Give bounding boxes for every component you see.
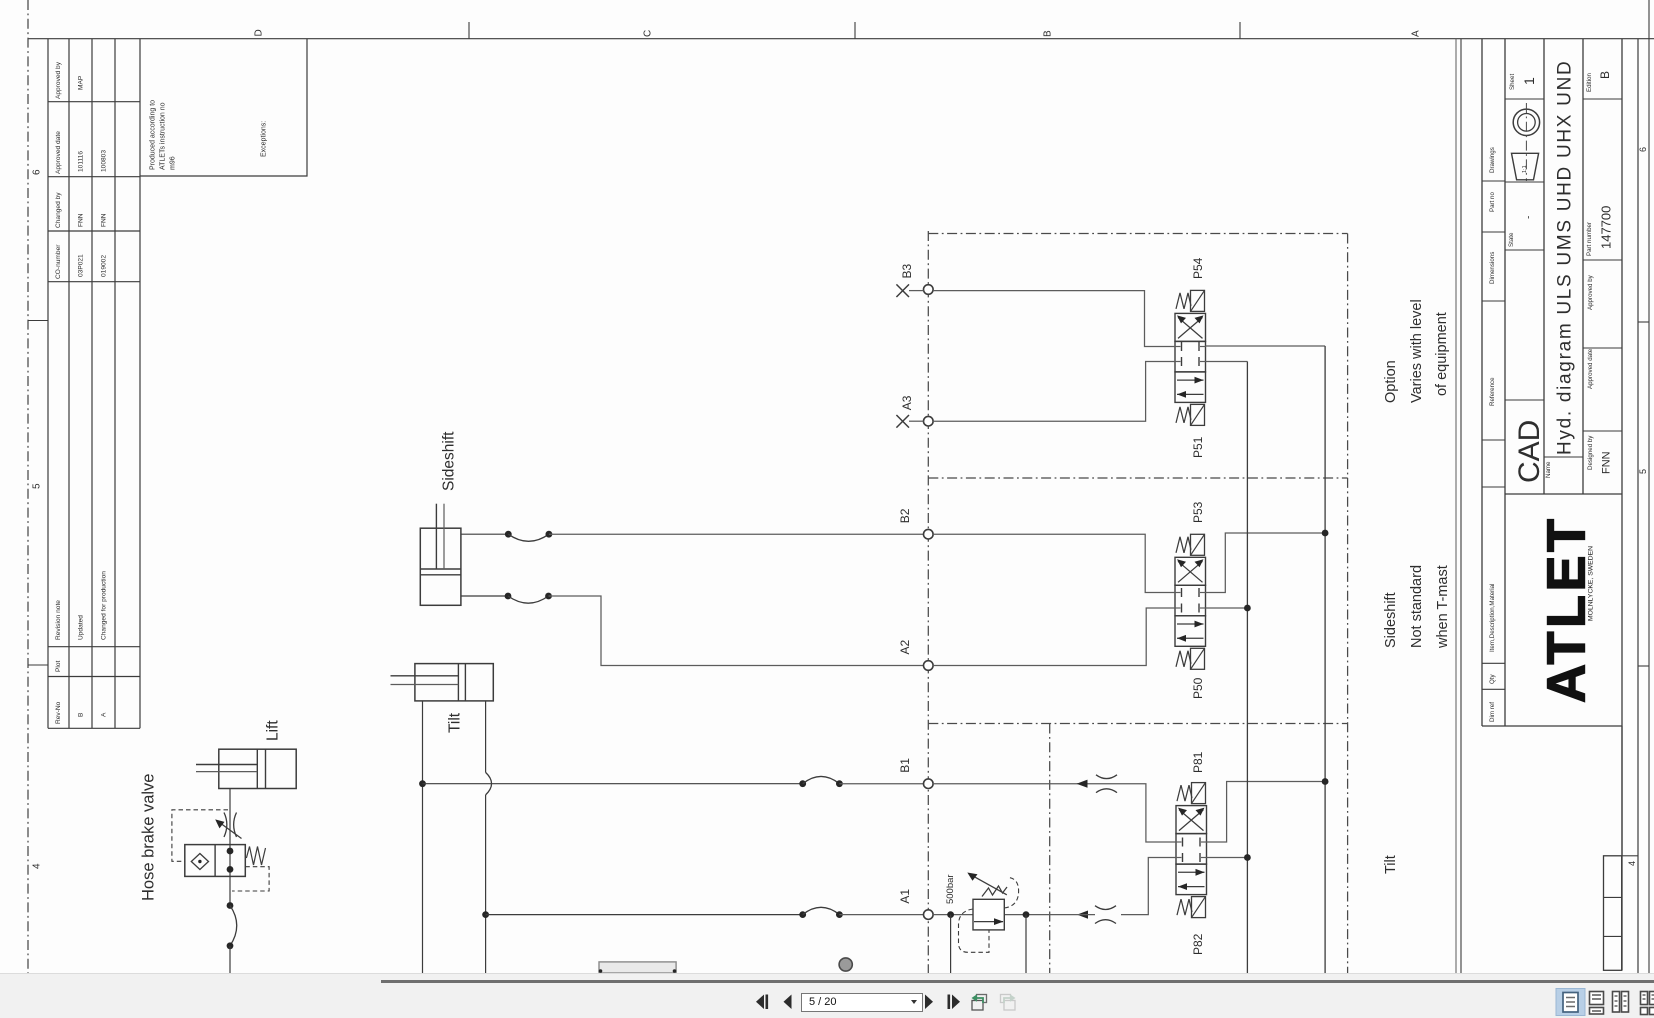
svg-text:Designed by: Designed by (1587, 435, 1594, 470)
svg-text:Updated: Updated (78, 615, 85, 640)
svg-text:Changed for production: Changed for production (101, 571, 108, 640)
frame grid tick left 1 (28, 320, 48, 322)
svg-text:MAP: MAP (78, 75, 85, 90)
button last page (948, 995, 951, 1010)
manifold boundary vertical (ports) (927, 231, 929, 973)
svg-text:6: 6 (31, 169, 42, 175)
manifold boundary right (1347, 234, 1349, 974)
svg-text:Hose brake valve: Hose brake valve (140, 774, 158, 901)
hose coupling A1 (799, 911, 806, 918)
frame right outer border (1648, 0, 1650, 973)
svg-text:Not standard: Not standard (1409, 565, 1425, 648)
svg-text:Option: Option (1383, 360, 1399, 403)
cylinder Tilt piston (457, 664, 459, 701)
svg-text:Edition: Edition (1586, 73, 1593, 92)
plug X at A3 (896, 415, 909, 428)
svg-text:Dim ref: Dim ref (1489, 702, 1496, 722)
svg-text:A3: A3 (900, 395, 914, 410)
layout two-page continuous (clipped) (1641, 992, 1654, 1015)
svg-text:A: A (101, 712, 108, 717)
wire P from valve P51 (1206, 361, 1248, 363)
svg-text:Tilt: Tilt (446, 712, 463, 733)
layout continuous (1590, 992, 1604, 1015)
svg-text:P82: P82 (1191, 933, 1205, 955)
svg-text:when T-mast: when T-mast (1435, 565, 1451, 649)
svg-text:5: 5 (31, 483, 42, 489)
svg-text:Part number: Part number (1586, 222, 1593, 256)
svg-text:019002: 019002 (101, 255, 108, 277)
svg-text:Changed by: Changed by (55, 192, 62, 228)
svg-text:Plot: Plot (55, 660, 62, 672)
junction tank-P53 (1322, 530, 1329, 537)
svg-text:Lift: Lift (264, 720, 281, 741)
svg-text:147700: 147700 (1598, 206, 1613, 249)
restrictor B1 (1096, 775, 1117, 779)
hose brake valve spring (246, 847, 265, 866)
wire tilt right line upper (485, 701, 487, 773)
svg-text:Part no: Part no (1489, 191, 1496, 212)
restrictor A1 (1095, 906, 1116, 910)
svg-text:Exceptions:: Exceptions: (260, 121, 267, 157)
relief valve pilot right (1004, 878, 1018, 909)
svg-text:FNN: FNN (1601, 451, 1613, 474)
button first page (756, 995, 764, 1010)
svg-text:1: 1 (1521, 77, 1537, 85)
manifold boundary low (928, 723, 1347, 725)
title strip separator line 1 (1455, 39, 1457, 973)
svg-text:CO-number: CO-number (55, 244, 62, 279)
revision table grid (47, 39, 49, 729)
wire brake valve down (229, 876, 231, 905)
wire lift cylinder to brake valve (229, 789, 231, 845)
wire drain2 to pump (1025, 915, 1027, 973)
wire tilt left line (422, 701, 424, 973)
svg-text:Drawings: Drawings (1489, 147, 1496, 173)
wire P50 to pressure (1206, 607, 1248, 609)
svg-text:B1: B1 (898, 758, 912, 773)
hose brake valve junction dots (227, 848, 234, 855)
notes box (140, 39, 307, 176)
tank line T (1324, 346, 1326, 973)
wire tank from P51 (1206, 345, 1326, 347)
svg-text:A1: A1 (898, 889, 912, 904)
port B3 (924, 285, 934, 295)
junction A1-drain2 (1023, 911, 1030, 918)
junction P-P50 (1244, 605, 1251, 612)
port B2 (924, 529, 934, 539)
variable restrictor (lift line) (224, 813, 227, 838)
wire B2 to valve P53 (933, 534, 1175, 592)
manifold boundary top (928, 233, 1347, 235)
cylinder Lift rod (196, 764, 257, 766)
wire P82 to pressure (1207, 857, 1248, 859)
svg-text:Sheet: Sheet (1509, 74, 1516, 90)
svg-text:Produced according to: Produced according to (149, 100, 156, 170)
svg-text:Qty: Qty (1489, 673, 1496, 684)
svg-text:4: 4 (31, 863, 42, 869)
svg-text:B3: B3 (900, 263, 914, 278)
svg-text:P54: P54 (1191, 257, 1205, 279)
hose brake valve body (185, 845, 246, 877)
svg-text:A2: A2 (898, 639, 912, 654)
svg-text:Dimensions: Dimensions (1489, 252, 1496, 284)
svg-text:Hyd. diagram ULS UMS UHD UHX U: Hyd. diagram ULS UMS UHD UHX UND (1555, 60, 1576, 455)
wire drain1 to pump (950, 915, 952, 973)
plug X at B3 (896, 284, 909, 297)
valve P81/P82 (1176, 783, 1207, 918)
svg-text:Item,Description,Material: Item,Description,Material (1489, 584, 1496, 652)
cylinder Sideshift piston (420, 568, 461, 570)
hose brake valve pilot line left (172, 810, 228, 862)
junction tank-P81 (1322, 778, 1329, 785)
motor circle (cut) (839, 958, 852, 971)
svg-text:B: B (1042, 30, 1053, 37)
svg-text:C: C (642, 30, 653, 37)
svg-text:4: 4 (1627, 861, 1637, 866)
relief valve adjust arrow (972, 875, 1007, 895)
wire A1 through relief (933, 914, 1095, 916)
svg-text:500bar: 500bar (945, 874, 956, 904)
svg-text:Approved date: Approved date (55, 131, 62, 174)
hose coupling (lift line) (227, 902, 234, 909)
frame right inner border (1637, 39, 1639, 973)
junction P-P82 (1244, 854, 1251, 861)
button next view (disabled) (1001, 994, 1016, 1010)
wire B1 left (423, 783, 803, 785)
relief valve body (973, 899, 1004, 930)
svg-text:CAD: CAD (1513, 420, 1546, 483)
cylinder Lift piston (256, 749, 258, 788)
flow arrow B1 (1077, 780, 1088, 788)
hose brake valve pilot line right (232, 867, 269, 891)
wire B1 to port (839, 783, 923, 785)
svg-text:Tilt: Tilt (1383, 855, 1399, 874)
wire P81 to tank (1207, 782, 1326, 843)
svg-text:100803: 100803 (101, 150, 108, 172)
layout two pages (1613, 992, 1629, 1013)
horizontal scrollbar (381, 980, 1654, 983)
frame grid tick top 2 (854, 22, 856, 39)
svg-text:Varies with level: Varies with level (1409, 299, 1425, 403)
junction tilt-A1 (482, 911, 489, 918)
svg-text:ATLETs instruction no: ATLETs instruction no (159, 102, 166, 170)
wire B1 to valve P81 (933, 784, 1176, 842)
svg-text:MOLNLYCKE, SWEDEN: MOLNLYCKE, SWEDEN (1587, 546, 1594, 621)
svg-text:6: 6 (1638, 147, 1648, 152)
wire B2 hose (461, 533, 508, 535)
svg-text:Sideshift: Sideshift (440, 431, 457, 491)
wire A2 to port (549, 596, 924, 666)
svg-text:Sideshift: Sideshift (1383, 592, 1399, 648)
svg-text:Approved date: Approved date (1587, 348, 1594, 389)
svg-text:FNN: FNN (78, 213, 85, 227)
drawing frame top border (28, 38, 1654, 40)
svg-text:A: A (1410, 30, 1421, 37)
cylinder Tilt rod (391, 675, 459, 677)
junction A1-drain1 (947, 911, 954, 918)
svg-text:Approved by: Approved by (1587, 274, 1594, 310)
svg-text:P81: P81 (1191, 751, 1205, 773)
wire A1 left (486, 914, 803, 916)
svg-text:101116: 101116 (78, 151, 85, 172)
svg-text:1:1: 1:1 (1522, 165, 1528, 173)
svg-text:State: State (1508, 232, 1515, 247)
page number combo box (801, 993, 923, 1012)
title block grid (1481, 39, 1483, 726)
frame grid tick left 2 (28, 664, 48, 666)
svg-text:Approved by: Approved by (55, 61, 62, 99)
relief valve spring (982, 886, 1007, 897)
pump block (cut) (599, 962, 676, 973)
svg-text:B: B (78, 712, 85, 717)
cylinder Lift body (219, 749, 296, 788)
drawing frame left border (dash-dot) (27, 0, 29, 973)
cylinder Tilt body (415, 664, 493, 701)
wire A1 to port (839, 914, 923, 916)
frame grid tick right 1 (1638, 321, 1649, 323)
svg-text:Rev-No: Rev-No (55, 701, 62, 724)
frame grid tick top 3 (1239, 22, 1241, 39)
hose brake valve internal line (229, 845, 231, 877)
svg-text:Reference: Reference (1489, 377, 1496, 406)
hose coupling B2 (505, 531, 512, 538)
frame grid tick right 2 (1638, 665, 1649, 667)
cylinder Sideshift body (420, 528, 461, 605)
wire A3 to valve P51 (933, 362, 1175, 422)
svg-text:m96: m96 (169, 156, 176, 170)
projection symbol (1513, 109, 1539, 135)
svg-text:P51: P51 (1191, 436, 1205, 458)
svg-text:Revision note: Revision note (55, 600, 62, 640)
wire tilt right line lower (485, 795, 487, 973)
wire A1 to valve P82 (1121, 858, 1176, 915)
hose coupling B1 (799, 780, 806, 787)
hose coupling A2 (505, 593, 512, 600)
cylinder Sideshift rod (435, 504, 437, 569)
wire P53 to tank (1206, 533, 1326, 593)
svg-text:of equipment: of equipment (1434, 312, 1450, 396)
port A3 (924, 416, 934, 426)
button previous page (784, 995, 792, 1010)
manifold boundary tilt-section (1049, 724, 1051, 974)
svg-text:FNN: FNN (101, 213, 108, 227)
button previous view (972, 994, 987, 1010)
button next page (925, 995, 933, 1010)
valve P50/P53 (1175, 534, 1206, 669)
svg-text:P50: P50 (1191, 677, 1205, 699)
svg-text:5: 5 (1638, 469, 1648, 474)
flow arrow A1 (1077, 911, 1088, 919)
wire A2 to valve P50 (933, 608, 1175, 666)
svg-text:D: D (253, 29, 264, 36)
manifold boundary mid (928, 477, 1347, 479)
svg-text:Name: Name (1545, 461, 1552, 478)
wire hop over B1 (486, 772, 492, 795)
port A2 (924, 661, 934, 671)
port A1 (924, 910, 934, 920)
svg-text:03P021: 03P021 (78, 254, 85, 277)
layout single page (active) (1556, 989, 1585, 1016)
svg-text:B2: B2 (898, 508, 912, 523)
frame grid tick top 1 (468, 22, 470, 39)
port B1 (924, 779, 934, 789)
svg-text:-: - (1523, 216, 1534, 219)
svg-text:P53: P53 (1191, 501, 1205, 523)
valve P51/P54 (1175, 290, 1206, 425)
svg-text:B: B (1598, 71, 1612, 79)
relief valve pilot left (959, 909, 990, 952)
wire B3 to valve P54 (933, 291, 1175, 347)
wire B2 to port (549, 533, 924, 535)
junction tilt-B1 (419, 780, 426, 787)
wire lift line to pump (229, 946, 231, 973)
title strip separator line 2 (1460, 39, 1462, 973)
continuation table (1604, 856, 1622, 971)
hose brake valve check diamond (191, 854, 208, 870)
wire A2 hose (461, 595, 508, 597)
pressure line P (1246, 362, 1248, 974)
